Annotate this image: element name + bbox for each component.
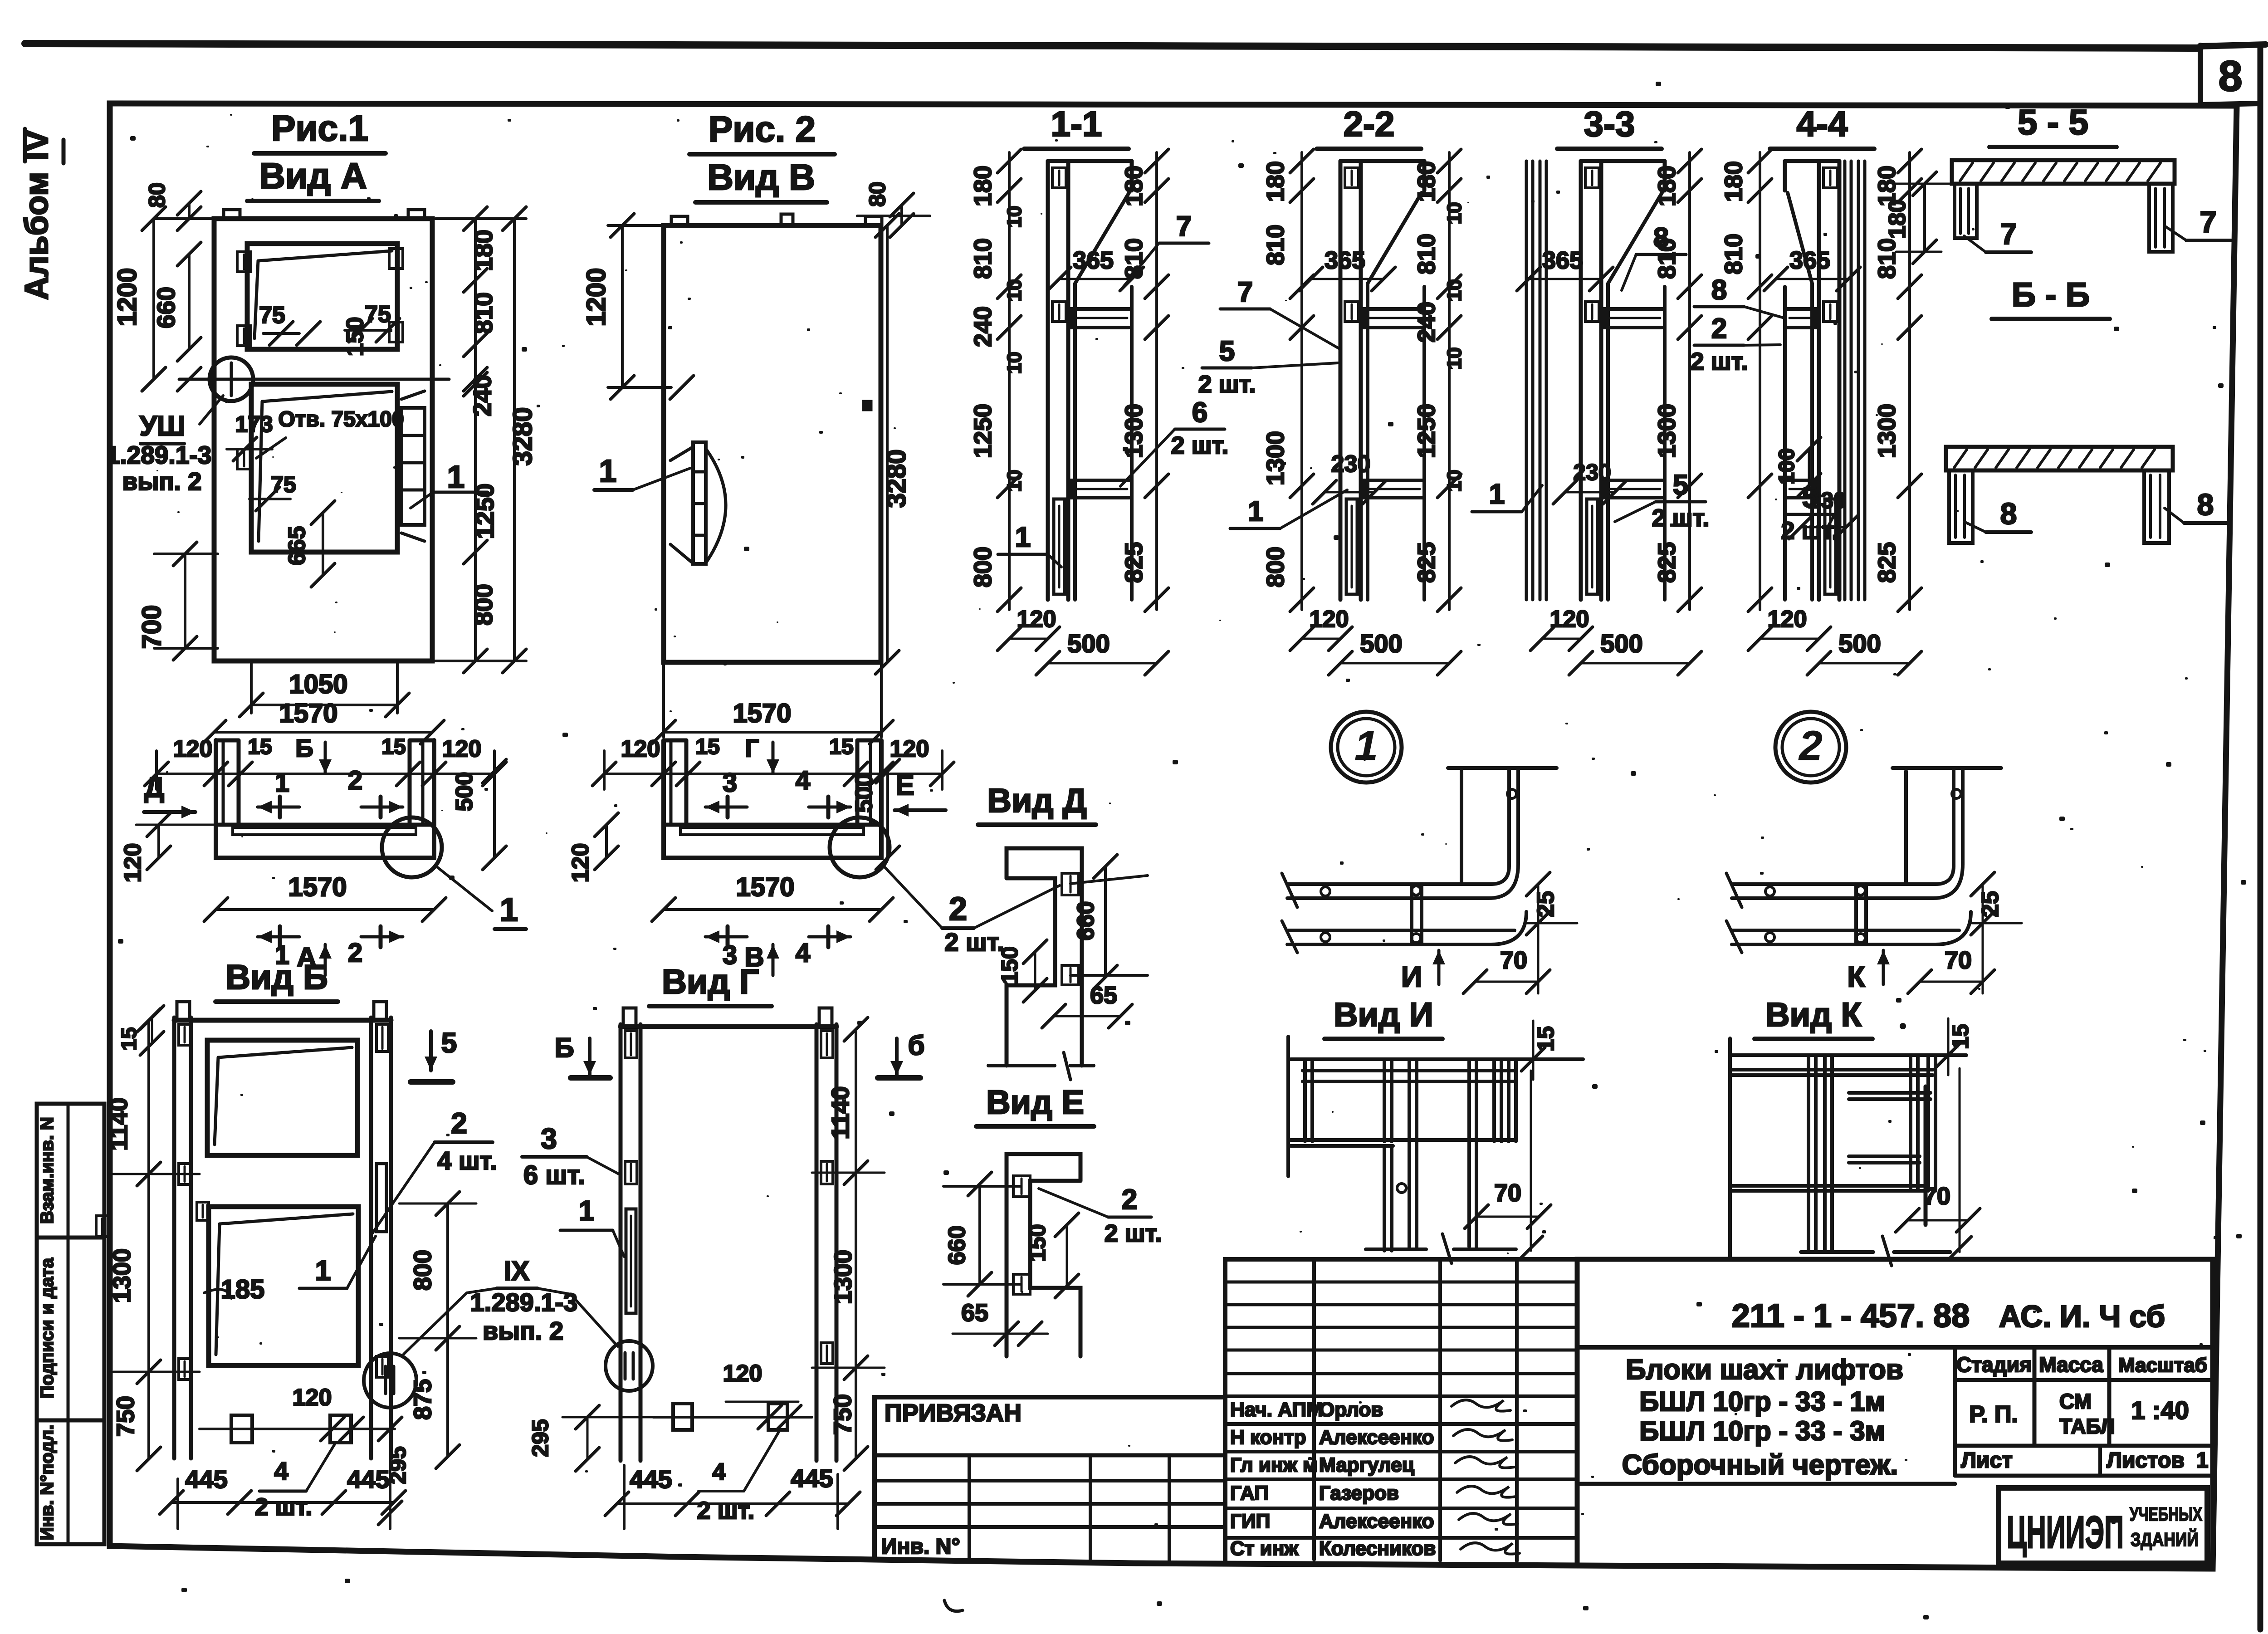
svg-text:10: 10 xyxy=(1443,347,1466,370)
Вид Г bottom dims 445 4 445 xyxy=(617,1502,848,1505)
svg-text:810: 810 xyxy=(1413,234,1440,274)
svg-text:70: 70 xyxy=(1945,947,1972,974)
svg-text:Рис. 2: Рис. 2 xyxy=(709,109,816,149)
svg-text:1570: 1570 xyxy=(279,699,337,728)
svg-text:1: 1 xyxy=(500,892,518,928)
section 1-1 anchors xyxy=(1052,168,1066,188)
svg-text:810: 810 xyxy=(1720,234,1747,274)
svg-text:Инв. N°: Инв. N° xyxy=(881,1535,960,1559)
svg-text:1: 1 xyxy=(447,459,465,494)
svg-text:3: 3 xyxy=(541,1122,557,1155)
svg-text:230: 230 xyxy=(1573,460,1611,485)
detail 1 bolts xyxy=(1321,887,1330,896)
svg-text:180: 180 xyxy=(1653,166,1681,206)
svg-text:10: 10 xyxy=(1003,206,1026,228)
svg-text:Вид И: Вид И xyxy=(1334,996,1433,1033)
Рис.1 elevation outline xyxy=(214,219,432,661)
section 1-1 wall column xyxy=(1046,161,1050,600)
svg-text:15: 15 xyxy=(1948,1024,1973,1049)
section 4-4 left dim chain xyxy=(1759,152,1761,610)
svg-text:Е: Е xyxy=(895,770,914,801)
svg-text:180: 180 xyxy=(1262,161,1289,202)
svg-text:173: 173 xyxy=(235,411,273,437)
svg-text:Вид А: Вид А xyxy=(259,156,367,196)
Рис.1 plan view U-channel xyxy=(216,740,434,858)
section 2-2 anchors xyxy=(1345,168,1359,188)
Вид Г wall clips xyxy=(625,1031,637,1058)
Вид И frame xyxy=(1286,1037,1290,1176)
svg-text:IХ: IХ xyxy=(504,1256,530,1286)
svg-text:825: 825 xyxy=(1873,542,1901,583)
svg-text:500: 500 xyxy=(1838,629,1881,658)
Вид К lower rail xyxy=(1732,1184,1926,1188)
svg-text:Рис.1: Рис.1 xyxy=(271,108,368,148)
svg-text:Масса: Масса xyxy=(2039,1353,2103,1376)
svg-text:Г: Г xyxy=(745,734,759,762)
svg-text:70: 70 xyxy=(1500,947,1527,974)
svg-text:65: 65 xyxy=(1090,982,1117,1009)
svg-text:8: 8 xyxy=(2000,497,2017,530)
svg-text:Маргулец: Маргулец xyxy=(1319,1454,1414,1476)
bottom squiggle mark xyxy=(944,1600,963,1611)
svg-text:Вид К: Вид К xyxy=(1765,996,1862,1033)
svg-text:295: 295 xyxy=(385,1446,411,1484)
svg-text:5 - 5: 5 - 5 xyxy=(2018,102,2088,142)
svg-text:10: 10 xyxy=(1003,279,1026,302)
svg-text:185: 185 xyxy=(221,1275,265,1304)
svg-text:1: 1 xyxy=(2196,1448,2209,1473)
section 4-4 anchors xyxy=(1823,168,1837,188)
section 2-2 crossbars xyxy=(1364,309,1424,328)
svg-text:875: 875 xyxy=(409,1379,436,1420)
section 1-1 top flange xyxy=(1048,159,1132,163)
svg-text:120: 120 xyxy=(442,736,482,762)
svg-text:1: 1 xyxy=(599,453,617,489)
Рис.2 elevation outline xyxy=(664,225,881,662)
svg-text:810: 810 xyxy=(469,292,498,334)
svg-text:2 шт.: 2 шт. xyxy=(1171,432,1229,459)
svg-text:4: 4 xyxy=(796,938,810,968)
section Б-Б right leg xyxy=(2144,470,2169,543)
Рис.2 lifting loops xyxy=(671,216,688,225)
Вид Б wall clips xyxy=(179,1024,191,1045)
svg-text:1570: 1570 xyxy=(733,699,791,728)
svg-text:Вид Г: Вид Г xyxy=(662,963,759,1001)
svg-text:120: 120 xyxy=(1550,606,1589,632)
svg-text:Б: Б xyxy=(295,734,313,762)
svg-text:660: 660 xyxy=(944,1226,970,1265)
svg-text:Гл инж м: Гл инж м xyxy=(1230,1454,1318,1476)
Рис.1 lower door panel xyxy=(251,384,397,552)
plan2 detail circle 2 xyxy=(830,817,890,877)
Вид Г anchor circle xyxy=(606,1341,653,1391)
svg-text:365: 365 xyxy=(1325,247,1365,274)
svg-text:Листов: Листов xyxy=(2107,1448,2185,1473)
svg-text:Алексеенко: Алексеенко xyxy=(1319,1426,1434,1448)
detail 2 stirrup xyxy=(1854,884,1858,944)
svg-text:800: 800 xyxy=(409,1250,436,1291)
section 1-1 right dim chain xyxy=(1155,152,1158,610)
Вид Д anchors xyxy=(1062,873,1079,895)
svg-text:Вид Е: Вид Е xyxy=(986,1083,1084,1121)
svg-text:5: 5 xyxy=(1673,470,1688,501)
svg-text:БШЛ 10гр - 33 - 3м: БШЛ 10гр - 33 - 3м xyxy=(1639,1416,1885,1446)
svg-text:10: 10 xyxy=(1003,470,1026,492)
section 2-2 left dim chain xyxy=(1300,152,1303,610)
svg-text:вып. 2: вып. 2 xyxy=(483,1316,563,1345)
title block privyazan box xyxy=(875,1397,1225,1564)
Вид Г walls xyxy=(619,1024,623,1461)
svg-text:2: 2 xyxy=(1122,1184,1137,1215)
Рис.2 door hinge / ladder element xyxy=(693,442,706,564)
svg-text:2: 2 xyxy=(949,891,967,927)
svg-text:1300: 1300 xyxy=(1262,431,1289,485)
svg-text:Р. П.: Р. П. xyxy=(1969,1401,2018,1428)
svg-text:ЗДАНИЙ: ЗДАНИЙ xyxy=(2131,1528,2199,1550)
svg-text:7: 7 xyxy=(2200,205,2217,239)
section 3-3 crossbars xyxy=(1605,309,1665,328)
svg-text:Орлов: Орлов xyxy=(1319,1399,1383,1421)
Вид Б right wall slot xyxy=(376,1164,386,1232)
svg-text:8: 8 xyxy=(1711,274,1727,306)
svg-text:120: 120 xyxy=(567,843,594,883)
svg-text:1300: 1300 xyxy=(1653,404,1681,458)
title block stadiya massa masshtab xyxy=(1953,1347,1957,1446)
svg-text:4-4: 4-4 xyxy=(1797,104,1848,144)
svg-text:УЧЕБНЫХ: УЧЕБНЫХ xyxy=(2130,1503,2202,1525)
svg-text:Вид В: Вид В xyxy=(707,157,815,197)
svg-text:1300: 1300 xyxy=(1873,404,1901,458)
signature squiggles xyxy=(1452,1400,1520,1554)
page right edge xyxy=(2258,45,2263,1629)
svg-text:120: 120 xyxy=(890,736,929,762)
left margin stamp column xyxy=(37,1104,104,1544)
svg-text:ТАБЛ: ТАБЛ xyxy=(2059,1414,2115,1438)
sheet number box 8 xyxy=(2198,45,2203,105)
svg-text:445: 445 xyxy=(630,1465,672,1493)
svg-text:7: 7 xyxy=(2000,217,2017,250)
section 3-3 shaft wall lines xyxy=(1525,161,1528,600)
svg-text:1250: 1250 xyxy=(1413,404,1440,458)
section 3-3 right dim chain xyxy=(1688,152,1691,610)
svg-text:180: 180 xyxy=(1120,166,1148,206)
svg-text:3: 3 xyxy=(723,768,737,797)
svg-text:365: 365 xyxy=(1789,247,1830,274)
svg-text:8: 8 xyxy=(2197,488,2214,521)
svg-text:1570: 1570 xyxy=(288,872,347,902)
Вид Б right dims 800 875 xyxy=(446,1203,449,1457)
svg-text:УШ: УШ xyxy=(140,411,186,442)
svg-text:ПРИВЯЗАН: ПРИВЯЗАН xyxy=(885,1399,1022,1427)
svg-text:2: 2 xyxy=(348,766,362,795)
svg-text:5: 5 xyxy=(1219,336,1235,367)
svg-text:4 шт.: 4 шт. xyxy=(437,1146,497,1175)
svg-text:750: 750 xyxy=(829,1394,856,1435)
Вид Б walls xyxy=(172,1018,176,1458)
detail 2 corner bars xyxy=(1732,866,1954,884)
svg-text:Стадия: Стадия xyxy=(1956,1353,2032,1376)
detail 1 top bars xyxy=(1460,771,1463,884)
Рис.1 right dims 180 810 240 1250 800 3280 xyxy=(474,219,477,661)
svg-text:Сборочный чертеж.: Сборочный чертеж. xyxy=(1622,1449,1898,1481)
svg-text:1 :40: 1 :40 xyxy=(2131,1396,2189,1424)
svg-text:80: 80 xyxy=(865,181,890,207)
Рис.2 right edge mark xyxy=(863,401,871,410)
svg-text:211 - 1 - 457. 88: 211 - 1 - 457. 88 xyxy=(1732,1298,1970,1334)
svg-text:1: 1 xyxy=(275,768,289,797)
svg-text:65: 65 xyxy=(961,1299,988,1326)
node circle VIII xyxy=(210,357,253,401)
svg-text:2 шт.: 2 шт. xyxy=(255,1493,313,1521)
svg-text:7: 7 xyxy=(1176,211,1192,242)
svg-text:Д: Д xyxy=(144,772,164,803)
svg-text:500: 500 xyxy=(851,773,877,813)
section 3-3 wall column xyxy=(1579,161,1583,600)
svg-text:ЦНИИЭП: ЦНИИЭП xyxy=(2007,1507,2124,1558)
svg-text:445: 445 xyxy=(347,1465,389,1493)
section 3-3 anchors xyxy=(1585,168,1599,188)
svg-text:1300: 1300 xyxy=(830,1250,857,1304)
svg-text:120: 120 xyxy=(120,843,146,883)
svg-text:4: 4 xyxy=(274,1457,288,1485)
svg-text:1200: 1200 xyxy=(112,268,142,326)
svg-text:1: 1 xyxy=(1248,496,1263,527)
Вид Е anchors xyxy=(1013,1176,1030,1197)
Вид Г wall slot xyxy=(626,1209,636,1313)
svg-text:240: 240 xyxy=(1413,302,1440,342)
svg-text:2-2: 2-2 xyxy=(1344,104,1395,144)
detail 1 corner bars xyxy=(1287,866,1509,884)
Вид И stem xyxy=(1383,1146,1386,1251)
svg-text:120: 120 xyxy=(621,736,660,762)
svg-text:295: 295 xyxy=(528,1419,553,1457)
svg-text:800: 800 xyxy=(469,584,498,626)
Вид Б bottom axis anchors xyxy=(200,1428,395,1430)
section 5-5 left leg xyxy=(1955,184,1977,238)
section 4-4 crossbars xyxy=(1785,309,1815,328)
Вид Г top loops xyxy=(623,1008,636,1026)
Рис.1 upper door panel xyxy=(247,244,397,349)
svg-text:120: 120 xyxy=(723,1360,763,1387)
section 4-4 right dim chain xyxy=(1908,152,1911,610)
svg-text:10: 10 xyxy=(1443,279,1466,302)
svg-text:365: 365 xyxy=(1073,247,1114,274)
svg-text:3280: 3280 xyxy=(508,407,538,465)
section Б-Б hatched bar xyxy=(1946,447,2173,470)
svg-text:500: 500 xyxy=(1067,629,1110,658)
svg-text:2: 2 xyxy=(1798,723,1822,769)
detail 1 break marks xyxy=(1282,873,1297,907)
svg-text:120: 120 xyxy=(173,736,213,762)
svg-text:1.289.1-3: 1.289.1-3 xyxy=(106,441,211,469)
svg-text:660: 660 xyxy=(1073,901,1099,941)
svg-text:Нач. АПМ: Нач. АПМ xyxy=(1230,1399,1323,1421)
svg-text:8: 8 xyxy=(2219,52,2243,100)
svg-text:б: б xyxy=(908,1030,924,1061)
svg-text:180: 180 xyxy=(469,230,498,271)
svg-text:70: 70 xyxy=(1923,1183,1950,1210)
Вид К stem xyxy=(1807,1191,1810,1251)
svg-text:15: 15 xyxy=(695,735,719,759)
svg-text:800: 800 xyxy=(969,547,997,587)
Вид К frame xyxy=(1728,1038,1732,1259)
svg-text:1300: 1300 xyxy=(108,1248,136,1303)
Вид Б bottom dims 445 4 445 xyxy=(171,1501,394,1504)
svg-text:180: 180 xyxy=(1884,200,1911,239)
page top rule xyxy=(25,44,2200,48)
section 5-5 right leg xyxy=(2149,184,2173,252)
section 4-4 wall column xyxy=(1817,161,1821,600)
svg-text:ГАП: ГАП xyxy=(1230,1482,1269,1504)
svg-text:1570: 1570 xyxy=(736,872,794,902)
svg-text:Альбом: Альбом xyxy=(19,172,55,300)
title block TSNIIEP logo xyxy=(1999,1488,2207,1563)
svg-text:1: 1 xyxy=(315,1255,331,1287)
svg-text:240: 240 xyxy=(468,375,496,416)
section 2-2 right dim chain xyxy=(1448,152,1451,610)
svg-text:2 шт.: 2 шт. xyxy=(1691,348,1748,375)
svg-text:365: 365 xyxy=(1542,247,1583,274)
svg-text:8: 8 xyxy=(1653,222,1669,254)
section 2-2 wall column xyxy=(1339,161,1343,600)
svg-text:1140: 1140 xyxy=(827,1086,854,1139)
svg-text:150: 150 xyxy=(1025,1224,1050,1262)
svg-text:К: К xyxy=(1847,960,1865,993)
svg-text:120: 120 xyxy=(1310,606,1349,632)
svg-text:БШЛ 10гр - 33 - 1м: БШЛ 10гр - 33 - 1м xyxy=(1639,1386,1885,1417)
svg-text:1: 1 xyxy=(1015,522,1031,553)
svg-text:70: 70 xyxy=(1494,1179,1521,1207)
svg-text:2 шт.: 2 шт. xyxy=(1198,371,1256,398)
svg-text:2 шт.: 2 шт. xyxy=(1105,1220,1162,1247)
Рис.1 bottom dims 1050 1570 xyxy=(250,661,253,713)
svg-text:15: 15 xyxy=(248,735,272,759)
svg-text:7: 7 xyxy=(1237,277,1253,308)
svg-text:вып. 2: вып. 2 xyxy=(122,467,201,495)
svg-text:500: 500 xyxy=(451,772,478,812)
svg-text:445: 445 xyxy=(791,1464,833,1492)
svg-text:1050: 1050 xyxy=(289,670,347,699)
svg-text:810: 810 xyxy=(969,238,997,279)
svg-text:1: 1 xyxy=(579,1195,594,1227)
svg-text:810: 810 xyxy=(1873,238,1901,279)
section 2-2 top flange xyxy=(1340,159,1424,163)
svg-text:660: 660 xyxy=(152,287,180,328)
detail 2 bolts xyxy=(1765,887,1774,896)
svg-text:6 шт.: 6 шт. xyxy=(523,1160,585,1190)
svg-text:120: 120 xyxy=(293,1384,332,1411)
svg-text:Отв. 75х100: Отв. 75х100 xyxy=(278,407,404,431)
Рис.1 panel clips xyxy=(237,252,251,272)
svg-text:4: 4 xyxy=(796,766,810,795)
svg-text:Подписи и дата: Подписи и дата xyxy=(37,1257,57,1399)
svg-text:10: 10 xyxy=(1443,202,1466,225)
detail 1 stirrup xyxy=(1410,884,1413,944)
detail 2 top bars xyxy=(1904,771,1908,884)
svg-text:150: 150 xyxy=(997,946,1022,984)
svg-text:6: 6 xyxy=(1192,397,1207,428)
title block main box xyxy=(1577,1259,2213,1569)
svg-text:665: 665 xyxy=(284,526,310,566)
svg-text:700: 700 xyxy=(137,605,166,649)
svg-text:445: 445 xyxy=(185,1465,227,1493)
svg-text:500: 500 xyxy=(1600,629,1642,658)
svg-text:2: 2 xyxy=(451,1107,467,1140)
svg-text:15: 15 xyxy=(829,735,853,759)
svg-text:230: 230 xyxy=(1808,488,1846,513)
Рис.2 plan view U-channel xyxy=(664,740,881,858)
svg-text:750: 750 xyxy=(112,1396,139,1437)
svg-text:10: 10 xyxy=(1443,470,1466,492)
svg-text:ГИП: ГИП xyxy=(1230,1510,1270,1532)
Вид К middle rungs xyxy=(1849,1091,1931,1095)
svg-text:Вид Б: Вид Б xyxy=(225,958,328,997)
Вид Д profile xyxy=(1007,848,1082,1066)
svg-text:80: 80 xyxy=(144,182,170,208)
svg-text:800: 800 xyxy=(1262,547,1289,587)
Вид Б door panel 2 xyxy=(209,1207,358,1365)
svg-text:2 шт.: 2 шт. xyxy=(697,1497,755,1524)
svg-text:2 шт.: 2 шт. xyxy=(1652,504,1710,532)
Вид Б door panel 1 xyxy=(207,1040,357,1155)
svg-text:240: 240 xyxy=(969,306,997,347)
section 1-1 crossbars xyxy=(1072,309,1132,328)
svg-text:825: 825 xyxy=(1413,542,1440,583)
svg-text:180: 180 xyxy=(1720,161,1747,202)
svg-text:1250: 1250 xyxy=(969,404,997,458)
section 4-4 shaft wall lines xyxy=(1843,161,1847,600)
title block list row xyxy=(1955,1444,2213,1448)
svg-text:Колесников: Колесников xyxy=(1319,1537,1436,1560)
svg-text:Н контр: Н контр xyxy=(1230,1426,1306,1448)
svg-text:15: 15 xyxy=(381,735,406,759)
svg-text:СМ: СМ xyxy=(2059,1389,2092,1413)
detail 2 break marks xyxy=(1726,873,1742,907)
svg-text:100: 100 xyxy=(1775,448,1799,484)
svg-text:3-3: 3-3 xyxy=(1584,104,1635,144)
svg-text:4: 4 xyxy=(713,1459,726,1485)
Вид Д bottom break xyxy=(988,1064,1055,1067)
svg-text:2: 2 xyxy=(348,938,362,968)
Вид Б top loops xyxy=(177,1002,190,1020)
title block signature table xyxy=(1225,1259,1577,1566)
svg-text:Газеров: Газеров xyxy=(1319,1482,1399,1504)
plan1 detail circle 1 xyxy=(382,817,442,877)
section Б-Б left leg xyxy=(1949,470,1973,543)
svg-text:180: 180 xyxy=(1413,161,1440,202)
svg-text:3280: 3280 xyxy=(882,449,911,508)
Рис.2 dim 3280 xyxy=(886,225,889,662)
Вид Б anchor circle xyxy=(364,1353,416,1408)
Вид И bars xyxy=(1303,1062,1307,1141)
svg-text:2: 2 xyxy=(1711,313,1727,344)
section 3-3 top flange xyxy=(1581,159,1665,163)
section 1-1 left dim chain xyxy=(1008,152,1011,610)
svg-text:1140: 1140 xyxy=(105,1097,132,1150)
svg-text:500: 500 xyxy=(1360,629,1402,658)
svg-text:230: 230 xyxy=(1331,451,1371,477)
svg-text:Взам.инв. N: Взам.инв. N xyxy=(37,1117,57,1224)
svg-text:75: 75 xyxy=(259,302,285,328)
svg-text:Инв. N°подл.: Инв. N°подл. xyxy=(37,1425,57,1541)
svg-text:Вид Д: Вид Д xyxy=(987,782,1086,819)
svg-text:120: 120 xyxy=(1017,606,1056,632)
svg-text:Ст инж: Ст инж xyxy=(1230,1537,1299,1560)
svg-text:АС. И. Ч сб: АС. И. Ч сб xyxy=(1999,1299,2165,1334)
svg-text:1: 1 xyxy=(1354,723,1378,769)
Вид Г right dims 1140 1300 750 xyxy=(855,1029,857,1458)
Вид Г bottom axis anchors xyxy=(653,1416,812,1419)
